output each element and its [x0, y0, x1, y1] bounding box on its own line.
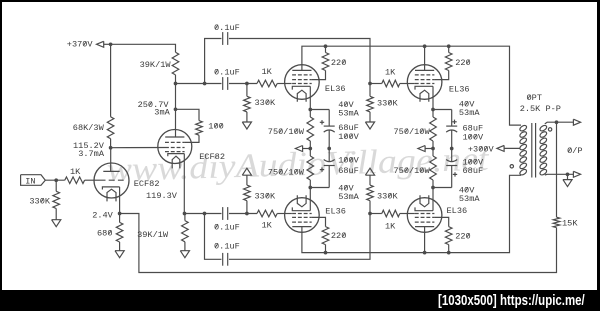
resistor 680 cathode: [97, 214, 123, 251]
resistor 750/10W upper-left: [268, 110, 314, 149]
svg-text:100V: 100V: [338, 156, 359, 166]
resistor 220 screen top-left: [312, 46, 347, 79]
junction top-right grid node: [368, 82, 372, 86]
tag arrow mid-right: [418, 146, 433, 152]
capacitor 0.1uF top-inner: [214, 67, 240, 90]
svg-text:2.5K P-P: 2.5K P-P: [520, 104, 561, 114]
junction 115.2V node: [109, 146, 113, 150]
tube EL36 bottom-left: [285, 195, 346, 232]
label 40V 53mA top-left: [338, 100, 359, 118]
svg-text:1K: 1K: [262, 67, 273, 77]
svg-text:68uF: 68uF: [463, 166, 484, 176]
wire triode plate: [110, 148, 112, 172]
junction secondary top: [555, 120, 559, 124]
svg-text:330K: 330K: [377, 191, 398, 201]
ground 330K top-right: [365, 122, 374, 129]
label phase dot secondary: [548, 128, 551, 131]
svg-text:EL36: EL36: [325, 84, 346, 94]
svg-text:0.1uF: 0.1uF: [214, 67, 240, 77]
tube EL36 bottom-right: [407, 195, 467, 232]
capacitor 68uF upper-left: [310, 110, 359, 149]
resistor 220 screen bottom-right: [434, 217, 470, 252]
resistor 1K grid stopper input: [65, 167, 100, 184]
ground 680: [115, 251, 124, 258]
svg-text:1K: 1K: [385, 68, 396, 78]
label 115.2V 3.7mA: [73, 141, 105, 159]
wire plate coupling row: [176, 83, 292, 85]
ground input: [52, 220, 61, 227]
wire EL36 top-left cathode: [309, 86, 311, 109]
junction plate node: [174, 82, 178, 112]
resistor 330K grid EL36 bottom-left: [244, 175, 276, 213]
wire pentode grid: [111, 147, 165, 149]
svg-text:220: 220: [331, 58, 346, 68]
transformer OPT 2.5K P-P: [519, 93, 561, 178]
svg-text:680: 680: [97, 228, 112, 238]
svg-text:1K: 1K: [70, 167, 81, 177]
junction top rail: [324, 44, 451, 48]
svg-text:53mA: 53mA: [338, 108, 359, 118]
capacitor 68uF lower-right: [433, 149, 484, 188]
wire feedback loop: [120, 214, 557, 273]
junction 40V node bottom-right: [431, 186, 435, 190]
power tag +300V center tap: [468, 145, 521, 155]
svg-text:750/10W: 750/10W: [394, 166, 431, 176]
svg-text:0.1uF: 0.1uF: [214, 242, 240, 252]
junction mid-left: [308, 147, 331, 151]
resistor 68K/3W: [73, 44, 114, 147]
wire bottom plate rail to OPT: [302, 175, 521, 252]
wire top plate rail to OPT: [302, 46, 521, 125]
wire +370V rail: [111, 44, 176, 52]
resistor 1K grid EL36 bottom-left: [257, 210, 277, 230]
svg-text:1K: 1K: [262, 220, 273, 230]
resistor 220 screen top-right: [434, 46, 470, 79]
resistor 39K/1W cathode load: [137, 214, 188, 251]
resistor 15K feedback: [553, 122, 578, 229]
ground 330K bottom-left inverted: [242, 168, 251, 175]
junction top row: [203, 82, 249, 86]
power tag +370V: [67, 40, 111, 50]
resistor 330K grid EL36 top-left: [244, 84, 276, 123]
ground 39K/1W: [180, 251, 189, 258]
resistor 330K grid EL36 top-right: [367, 84, 399, 123]
tag arrow mid-left: [295, 146, 310, 152]
svg-text:+300V: +300V: [468, 145, 495, 155]
wire pentode cathode: [183, 154, 185, 214]
svg-text:330K: 330K: [255, 98, 276, 108]
capacitor 68uF lower-left: [310, 149, 359, 188]
junction 119.3V cathode node: [183, 212, 187, 216]
capacitor 0.1uF top-outer: [214, 23, 240, 45]
wire EL36 bottom-left cathode: [309, 188, 311, 211]
label 119.3V: [146, 191, 178, 201]
label 40V 53mA top-right: [459, 100, 480, 119]
svg-text:330K: 330K: [29, 196, 50, 206]
svg-text:100V: 100V: [463, 133, 484, 143]
junction bottom rail: [324, 251, 451, 255]
tube ECF82 pentode phase splitter: [158, 130, 225, 169]
capacitor 68uF upper-right: [433, 110, 484, 149]
svg-text:39K/1W: 39K/1W: [137, 230, 169, 240]
svg-text:3mA: 3mA: [154, 107, 170, 117]
capacitor 0.1uF bottom-inner: [214, 207, 240, 232]
label O/P: [567, 146, 582, 156]
ground 330K top-left: [242, 122, 251, 129]
wire secondary bottom output: [545, 173, 574, 176]
label 40V 53mA bottom-right: [459, 185, 480, 204]
svg-text:0.1uF: 0.1uF: [214, 222, 240, 232]
wire triode cathode: [119, 187, 121, 214]
junction mid-right: [431, 147, 453, 151]
junction cathode 2.4V node: [118, 212, 122, 216]
wire EL36 bottom-right cathode: [432, 188, 434, 211]
svg-text:1K: 1K: [385, 221, 396, 231]
terminal O/P arrow top: [573, 119, 580, 125]
svg-text:750/10W: 750/10W: [394, 127, 431, 137]
svg-text:39K/1W: 39K/1W: [140, 60, 172, 70]
tube EL36 top-right: [407, 65, 469, 102]
svg-text:+370V: +370V: [67, 40, 94, 50]
junction 40V node top-right: [431, 108, 435, 112]
junction bottom row: [203, 212, 249, 216]
wire bottom cap branch: [205, 214, 371, 260]
label 250.7V 3mA: [138, 100, 171, 118]
capacitor 0.1uF bottom-outer: [214, 242, 240, 266]
wire plate node: [175, 75, 177, 137]
svg-text:EL36: EL36: [325, 206, 346, 216]
svg-text:ECF82: ECF82: [199, 152, 225, 162]
svg-text:EL36: EL36: [447, 206, 468, 216]
svg-text:220: 220: [455, 58, 470, 68]
resistor 1K grid EL36 top-left: [257, 67, 277, 87]
terminal IN tag: [21, 175, 65, 187]
wire EL36 top-right cathode: [432, 86, 434, 109]
label 2.4V: [92, 210, 113, 220]
svg-text:IN: IN: [25, 176, 35, 186]
svg-text:750/10W: 750/10W: [268, 167, 305, 177]
tube ECF82 triode input: [94, 163, 159, 201]
resistor 750/10W lower-right: [394, 149, 437, 188]
wire top cap branch: [205, 39, 370, 84]
label 40V 53mA bottom-left: [338, 183, 359, 202]
resistor 1K grid EL36 top-right: [370, 68, 415, 87]
resistor 750/10W upper-right: [394, 110, 437, 149]
resistor 330K grid EL36 bottom-right: [367, 175, 399, 213]
ground secondary: [563, 174, 572, 186]
resistor 100 screen stopper: [176, 109, 224, 142]
svg-text:ECF82: ECF82: [134, 179, 160, 189]
svg-text:750/10W: 750/10W: [268, 127, 305, 137]
svg-text:3.7mA: 3.7mA: [78, 149, 105, 159]
junction secondary bottom: [566, 172, 570, 176]
resistor 39K/1W plate load: [140, 52, 179, 75]
label phase dot primary: [510, 165, 513, 168]
junction +370V node: [109, 42, 113, 46]
tube EL36 top-left: [285, 65, 346, 102]
svg-text:53mA: 53mA: [338, 192, 359, 202]
junction input node: [54, 178, 58, 182]
terminal O/P arrow bottom: [573, 171, 580, 177]
svg-text:330K: 330K: [255, 191, 276, 201]
svg-text:68K/3W: 68K/3W: [73, 123, 105, 133]
svg-text:53mA: 53mA: [459, 194, 480, 204]
svg-text:68uF: 68uF: [338, 166, 359, 176]
resistor 330K input grid: [29, 180, 59, 220]
svg-text:EL36: EL36: [449, 84, 470, 94]
wire cathode coupling row: [185, 213, 292, 215]
junction 40V node top-left: [308, 108, 312, 112]
wire secondary top output: [545, 122, 574, 124]
junction bottom-right grid node: [368, 212, 372, 216]
svg-text:15K: 15K: [562, 219, 578, 229]
svg-text:220: 220: [455, 231, 470, 241]
svg-text:330K: 330K: [377, 98, 398, 108]
svg-text:100V: 100V: [338, 132, 359, 142]
resistor 1K grid EL36 bottom-right: [370, 210, 415, 231]
svg-text:100: 100: [208, 122, 223, 132]
resistor 220 screen bottom-left: [312, 217, 347, 252]
svg-text:53mA: 53mA: [459, 108, 480, 118]
svg-text:220: 220: [331, 231, 346, 241]
svg-text:119.3V: 119.3V: [146, 191, 178, 201]
ground 330K bottom-right inverted: [365, 168, 374, 175]
junction 40V node bottom-left: [308, 186, 312, 190]
svg-text:0.1uF: 0.1uF: [214, 23, 240, 33]
svg-text:2.4V: 2.4V: [92, 210, 113, 220]
resistor 750/10W lower-left: [268, 149, 314, 188]
